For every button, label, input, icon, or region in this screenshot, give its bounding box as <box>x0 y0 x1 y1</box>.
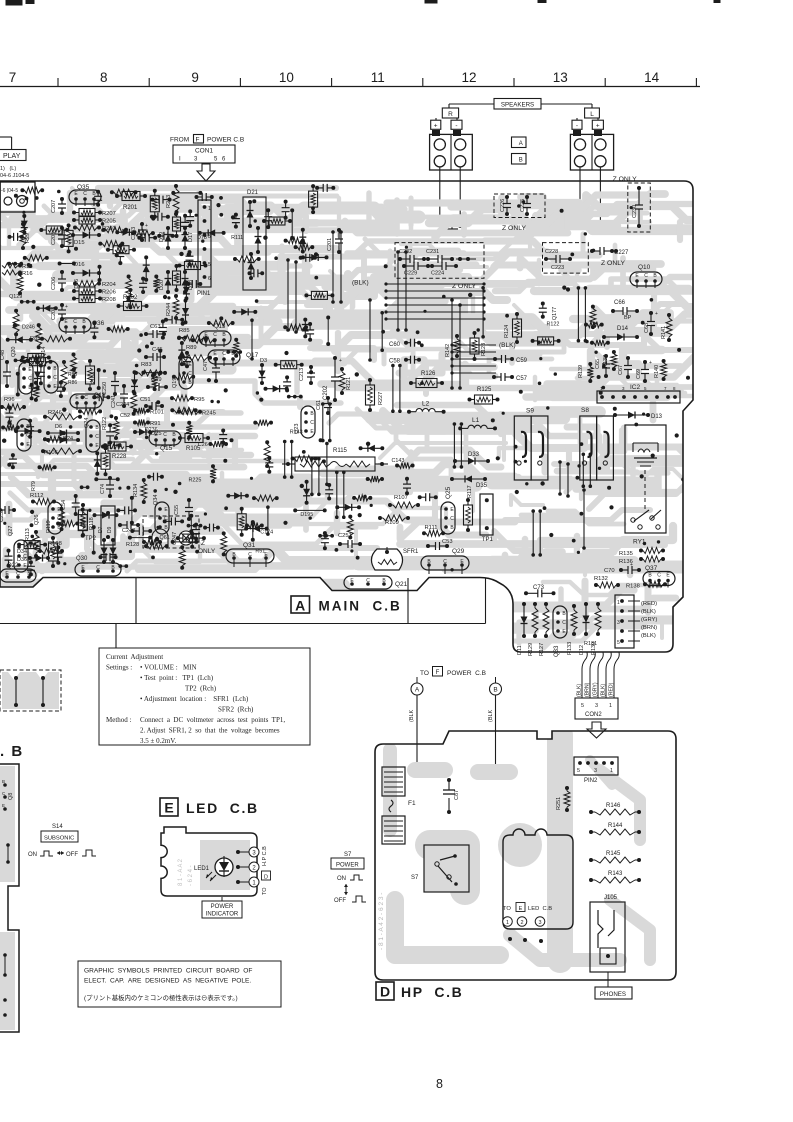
svg-text:R133: R133 <box>567 642 573 655</box>
svg-text:2. Adjust SFR1, 2 so that: 2. Adjust SFR1, 2 so that the voltage be… <box>140 727 280 735</box>
resistor R107 <box>388 495 420 508</box>
transistor Q24 <box>84 418 100 452</box>
HP board fading id text <box>378 893 385 950</box>
HP board outline <box>375 731 676 980</box>
svg-text:OFF: OFF <box>66 852 78 858</box>
svg-text:+: + <box>434 123 438 130</box>
svg-text:R125: R125 <box>477 387 492 393</box>
capacitor C49 <box>146 377 168 391</box>
resistor R112 <box>30 493 56 505</box>
resistor R130 <box>591 602 601 655</box>
svg-text:R251: R251 <box>556 797 562 810</box>
label Z ONLY under C232 box <box>452 283 477 290</box>
label D HP C.B <box>376 982 463 1000</box>
capacitor C206 <box>51 270 66 292</box>
transistor Q15 <box>149 431 181 452</box>
svg-text:R128: R128 <box>126 542 139 548</box>
resistor R205 (boxed) <box>72 216 116 225</box>
capacitor C251 <box>338 533 362 548</box>
svg-text:R113: R113 <box>25 528 31 541</box>
switch S9 <box>514 408 548 481</box>
component cluster mid-left <box>1 336 216 477</box>
component cluster mid-center <box>203 338 334 557</box>
relay RY1 <box>625 425 666 546</box>
capacitor C202 <box>323 356 342 402</box>
resistor R227 (boxed) <box>366 378 385 412</box>
svg-text:Z ONLY: Z ONLY <box>601 260 626 267</box>
label SPEAKERS <box>449 99 592 110</box>
svg-text:PIN2: PIN2 <box>584 778 598 784</box>
svg-text:A: A <box>415 687 420 694</box>
svg-text:(BLK): (BLK) <box>641 633 656 639</box>
resistor R245 <box>177 409 216 417</box>
dashed box C228 C223 <box>543 243 589 274</box>
svg-text:Q27: Q27 <box>8 526 14 536</box>
svg-text:Q31: Q31 <box>243 542 256 549</box>
svg-text:C: C <box>73 319 77 325</box>
resistor R132 <box>594 576 620 588</box>
svg-text:R207: R207 <box>102 211 116 217</box>
transistor Q35 <box>69 184 101 206</box>
svg-text:R132: R132 <box>594 576 608 582</box>
label A MAIN C.B with leader lines <box>0 578 486 648</box>
resistor R201 (boxed) <box>115 192 147 212</box>
current adjustment note box <box>99 648 310 745</box>
svg-text:5: 5 <box>581 703 584 709</box>
svg-text:Q26: Q26 <box>34 515 40 525</box>
svg-text:Q8: Q8 <box>8 793 14 800</box>
transistor Q25 <box>441 486 455 534</box>
dashed box C226 C225 <box>494 194 545 218</box>
resistor R206 (boxed) <box>72 287 116 296</box>
label Z ONLY under C227 <box>601 260 626 267</box>
svg-text:LED C.B: LED C.B <box>528 906 552 912</box>
transistor Q14 <box>41 347 58 393</box>
resistor R202 (boxed) <box>117 295 149 311</box>
diode D13 <box>613 412 663 421</box>
svg-text:C: C <box>222 351 226 357</box>
svg-text:Q21: Q21 <box>395 581 408 588</box>
svg-text:FROM: FROM <box>170 137 189 144</box>
svg-text:C55: C55 <box>174 505 180 515</box>
svg-text:C201: C201 <box>327 238 333 251</box>
svg-text:C: C <box>84 395 88 401</box>
svg-text:TP2: TP2 <box>85 536 97 542</box>
svg-text:E: E <box>2 803 5 808</box>
svg-text:C61: C61 <box>316 400 322 410</box>
svg-text:C: C <box>16 571 20 577</box>
LED LED1 indicator <box>194 856 233 881</box>
capacitor C241 <box>111 384 128 408</box>
capacitor C68 <box>644 311 658 336</box>
component cluster lower-left <box>5 473 206 577</box>
svg-text:C143: C143 <box>392 458 405 464</box>
diode D4 <box>34 354 43 390</box>
resistor R139 <box>578 362 593 383</box>
svg-text:R95: R95 <box>194 397 205 403</box>
resistor R134 <box>133 478 147 504</box>
svg-text:(GRY): (GRY) <box>593 682 599 697</box>
svg-text:C: C <box>248 552 252 558</box>
svg-text:R107: R107 <box>394 495 408 501</box>
diode D3 <box>259 358 268 385</box>
diode D36 <box>17 557 27 563</box>
label TO F POWER C.B (HP board) <box>420 667 486 678</box>
svg-text:OFF: OFF <box>334 898 346 904</box>
svg-text:5: 5 <box>208 262 211 268</box>
svg-text:E: E <box>164 800 173 816</box>
svg-text:R101: R101 <box>150 410 164 416</box>
svg-text:Q25: Q25 <box>445 486 452 499</box>
svg-text:C74: C74 <box>100 484 106 494</box>
svg-text:-: - <box>576 123 578 130</box>
diode D12 <box>579 602 590 655</box>
svg-text:C: C <box>644 273 648 279</box>
resistor R207 (boxed) <box>72 209 116 218</box>
arrow from CON2 to HP board <box>587 722 606 738</box>
wire speaker L to board <box>578 167 602 226</box>
resistor R106 <box>41 448 82 456</box>
svg-text:3: 3 <box>617 620 620 626</box>
capacitor C57 <box>492 373 528 382</box>
resistor R15 <box>2 263 33 270</box>
main board copper trace pattern <box>0 188 793 647</box>
svg-text:(BLK): (BLK) <box>601 683 607 697</box>
svg-text:Current Adjustment: Current Adjustment <box>106 653 163 661</box>
svg-text:-: - <box>455 123 457 130</box>
diode D6 <box>46 424 80 437</box>
svg-text:C228: C228 <box>545 249 558 255</box>
svg-text:C52: C52 <box>120 413 130 419</box>
svg-text:D6: D6 <box>55 424 62 430</box>
diode pair D19 D17 with resistor <box>159 210 194 250</box>
capacitor C60 <box>389 339 421 348</box>
diode D25 <box>133 429 162 438</box>
partial board left edge <box>0 764 19 1032</box>
svg-text:R146: R146 <box>606 803 621 809</box>
svg-text:S7: S7 <box>411 875 419 881</box>
svg-text:B: B <box>493 687 497 694</box>
svg-text:Q177: Q177 <box>552 307 558 320</box>
svg-text:Q33: Q33 <box>554 645 560 657</box>
svg-text:R96: R96 <box>4 397 15 403</box>
resistor R108 <box>38 541 64 554</box>
label Z ONLY above C230 <box>613 176 638 183</box>
svg-text:1: 1 <box>208 206 211 212</box>
resistor R29 <box>20 222 31 250</box>
svg-text:C244: C244 <box>116 402 129 408</box>
svg-text:R127: R127 <box>539 643 545 656</box>
svg-text:8: 8 <box>436 1077 443 1091</box>
transistor Q22 <box>0 563 36 582</box>
capacitor C59 <box>493 355 528 364</box>
svg-text:POWER: POWER <box>336 863 359 869</box>
svg-text:(BLK): (BLK) <box>641 609 656 615</box>
component cluster center <box>335 445 438 540</box>
svg-text:D11: D11 <box>517 645 523 655</box>
svg-text:C47: C47 <box>203 361 209 371</box>
svg-text:1: 1 <box>609 703 612 709</box>
resistor R115 (boxed) <box>282 448 388 471</box>
svg-text:BP: BP <box>624 315 632 321</box>
svg-text:5: 5 <box>577 768 580 774</box>
note box graphic symbols <box>78 961 281 1007</box>
ruler scale bar <box>0 70 700 87</box>
diode D14 <box>602 326 639 341</box>
capacitor C58 <box>389 356 421 365</box>
svg-text:L1: L1 <box>472 417 480 424</box>
LED circuit board outline <box>161 827 257 896</box>
page number <box>436 1077 443 1091</box>
svg-text:Q20: Q20 <box>11 347 17 357</box>
svg-text:R140: R140 <box>654 365 660 378</box>
svg-text:D7: D7 <box>98 526 104 533</box>
transistor Q37 <box>643 565 675 588</box>
svg-text:Settings :: Settings : <box>106 664 132 672</box>
svg-text:+: + <box>655 311 658 317</box>
resistor R138 <box>626 581 667 589</box>
svg-text:D: D <box>380 984 390 1000</box>
svg-text:C: C <box>450 516 454 522</box>
svg-text:C48: C48 <box>0 350 6 360</box>
svg-text:D236: D236 <box>145 427 158 433</box>
svg-text:R225: R225 <box>189 478 202 484</box>
resistor R133 <box>567 604 577 655</box>
svg-text:ON: ON <box>337 876 346 882</box>
svg-text:D3: D3 <box>260 358 267 364</box>
resistor R135 <box>619 548 665 558</box>
transistor Q26 <box>34 502 62 534</box>
capacitor C51 <box>140 397 164 410</box>
svg-text:Q15: Q15 <box>160 445 173 452</box>
svg-text:+: + <box>145 223 148 229</box>
svg-text:R245: R245 <box>202 411 216 417</box>
svg-text:R244: R244 <box>166 303 172 316</box>
resistor R246 <box>43 410 82 420</box>
svg-text:R129: R129 <box>528 643 534 656</box>
resistor R140 <box>654 359 667 381</box>
resistor R203 <box>73 225 116 233</box>
dashed box Z ONLY with C247 <box>143 516 199 548</box>
svg-text:+: + <box>649 360 652 366</box>
resistor R125 (boxed) <box>468 387 500 404</box>
svg-text:12: 12 <box>461 70 476 85</box>
svg-text:J105: J105 <box>604 895 618 901</box>
svg-text:+: + <box>65 304 68 310</box>
svg-text:R123: R123 <box>481 343 487 356</box>
resistor R109 <box>378 515 410 526</box>
svg-text:R89: R89 <box>186 345 197 351</box>
svg-text:E: E <box>519 906 523 912</box>
svg-text:F1: F1 <box>408 800 416 807</box>
svg-text:8: 8 <box>100 70 108 85</box>
svg-text:Z ONLY: Z ONLY <box>613 176 638 183</box>
svg-text:D: D <box>264 875 268 881</box>
svg-text:C: C <box>53 375 57 381</box>
test point TP1 <box>480 494 493 543</box>
label PHONES <box>595 972 632 999</box>
svg-text:C: C <box>96 565 100 571</box>
svg-text:R124: R124 <box>504 325 510 338</box>
label Z ONLY under C226 box <box>502 225 527 232</box>
diode D33 <box>453 452 490 465</box>
svg-text:POWER C.B: POWER C.B <box>207 137 244 144</box>
resistor R118 (boxed) <box>79 503 96 537</box>
svg-text:C51: C51 <box>140 397 151 403</box>
svg-text:C231: C231 <box>426 249 439 255</box>
svg-text:C: C <box>562 620 566 626</box>
capacitor C248 <box>118 521 140 534</box>
transistor Q10 <box>630 264 662 288</box>
capacitor C227 <box>590 247 629 256</box>
svg-text:1: 1 <box>610 768 613 774</box>
resistor R128 <box>126 539 162 548</box>
transistor Q17 <box>208 350 259 366</box>
label (BLK) wire bundle left <box>352 280 486 321</box>
resistor R131 <box>584 641 597 647</box>
resistor R123 (boxed) <box>470 331 487 361</box>
label FROM F POWER C.B <box>170 135 244 144</box>
svg-text:7: 7 <box>9 70 17 85</box>
svg-text:TP1: TP1 <box>482 537 494 543</box>
svg-text:IC2: IC2 <box>630 384 641 391</box>
speaker R terminal label <box>431 108 462 130</box>
main board copper trace wide channels <box>3 208 793 618</box>
svg-text:R204: R204 <box>102 282 117 288</box>
svg-text:C226: C226 <box>500 199 506 212</box>
capacitor C47 <box>203 357 220 383</box>
svg-text:1: 1 <box>617 600 620 606</box>
svg-text:D20: D20 <box>159 280 165 290</box>
svg-text:• VOLUME : MIN: • VOLUME : MIN <box>140 664 197 672</box>
switch S14 SUBSONIC <box>28 824 96 858</box>
svg-text:+: + <box>630 562 633 568</box>
svg-text:1) (L): 1) (L) <box>0 166 16 172</box>
connector PIN1 <box>197 200 211 297</box>
resistor R96 <box>0 397 26 410</box>
capacitor C52 <box>120 413 130 419</box>
svg-text:R206: R206 <box>102 290 116 296</box>
connector IC2 <box>597 384 680 403</box>
svg-text:R83: R83 <box>141 362 152 368</box>
svg-text:ONLY: ONLY <box>198 548 216 555</box>
svg-text:Q29: Q29 <box>452 548 465 555</box>
svg-text:C: C <box>28 376 32 382</box>
resistor R101 <box>133 408 164 416</box>
svg-text:C67: C67 <box>618 365 624 375</box>
svg-text:D16: D16 <box>74 279 80 289</box>
svg-text:SFR1: SFR1 <box>403 549 419 555</box>
capacitor C73 <box>524 585 556 597</box>
page top edge fragments <box>6 0 720 5</box>
svg-text:D21: D21 <box>247 190 259 196</box>
svg-text:R111: R111 <box>425 525 438 531</box>
svg-text:R122: R122 <box>102 417 108 430</box>
transistor Q13 <box>199 324 231 347</box>
resistor R105 (boxed) <box>178 434 210 453</box>
svg-text:C: C <box>443 559 447 565</box>
transistor Q20 <box>11 347 33 394</box>
vertical wire pairs <box>250 230 592 557</box>
svg-text:R138: R138 <box>626 584 640 590</box>
svg-text:3: 3 <box>595 703 598 709</box>
svg-text:R134: R134 <box>133 484 139 497</box>
svg-text:R131: R131 <box>584 641 597 647</box>
svg-text:C59: C59 <box>516 358 528 364</box>
svg-text:PIN1: PIN1 <box>197 291 211 297</box>
resistor R95 <box>170 395 205 403</box>
svg-text:MAIN C.B: MAIN C.B <box>319 599 402 614</box>
svg-text:14: 14 <box>644 70 660 85</box>
speaker select box A <box>512 137 527 148</box>
svg-text:C213: C213 <box>299 368 305 381</box>
svg-text:S9: S9 <box>526 408 534 415</box>
speaker terminal block R <box>430 131 473 171</box>
transistor Q18 <box>70 393 106 410</box>
diode array D21 <box>243 190 266 290</box>
svg-text:Method :: Method : <box>106 716 132 724</box>
transistor Q34 <box>153 495 169 534</box>
diode D15 <box>71 232 101 247</box>
switch S7 POWER label <box>331 852 366 904</box>
diode D35 <box>450 476 488 490</box>
speaker L terminal label <box>572 108 603 130</box>
svg-text:TO: TO <box>262 887 268 895</box>
resistor R144 <box>589 823 641 835</box>
svg-text:R29: R29 <box>25 233 31 243</box>
svg-text:Q37: Q37 <box>645 565 658 572</box>
svg-text:ELECT. CAP. ARE DESIGNED A: ELECT. CAP. ARE DESIGNED AS NEGATIVE POL… <box>84 978 251 985</box>
label Z ONLY near Q31 <box>198 540 216 555</box>
svg-text:LED1: LED1 <box>194 866 210 872</box>
svg-text:F: F <box>436 670 440 676</box>
svg-text:POWER: POWER <box>211 904 234 910</box>
connector label PLAY <box>0 137 29 179</box>
component cluster right-mid <box>531 302 610 346</box>
svg-text:Z: Z <box>201 540 205 547</box>
svg-text:POWER C.B: POWER C.B <box>447 670 486 677</box>
resistor R129 <box>528 602 538 656</box>
svg-text:R227: R227 <box>378 392 384 405</box>
svg-text:C224: C224 <box>431 271 444 277</box>
svg-text:R126: R126 <box>421 371 436 377</box>
switch S7 on HP board <box>411 845 469 892</box>
svg-text:C26: C26 <box>198 442 208 448</box>
svg-text:9: 9 <box>191 70 199 85</box>
svg-text:(BRN): (BRN) <box>641 625 657 631</box>
connector PIN2 <box>574 757 618 784</box>
svg-text:+: + <box>339 358 342 364</box>
svg-text:R122: R122 <box>547 321 560 327</box>
transistor Q19 <box>172 357 193 389</box>
svg-text:2: 2 <box>520 920 523 926</box>
coil L1 <box>458 417 497 430</box>
svg-text:. B: . B <box>0 743 24 760</box>
dashed box lower-left with jumper wires <box>0 670 61 711</box>
coil L2 <box>407 401 446 414</box>
capacitor C205 <box>51 226 68 248</box>
svg-text:ON: ON <box>28 852 37 858</box>
svg-text:10: 10 <box>279 70 294 85</box>
resistor R141 <box>661 313 672 342</box>
svg-text:R121: R121 <box>346 377 352 390</box>
LED board terminals to HP board <box>236 847 259 887</box>
resistor R243 <box>166 184 179 216</box>
svg-text:8 1 - A A 2: 8 1 - A A 2 <box>178 858 184 886</box>
capacitor C63 <box>144 324 166 338</box>
component cluster upper-mid <box>207 184 335 346</box>
svg-text:6: 6 <box>208 276 211 282</box>
